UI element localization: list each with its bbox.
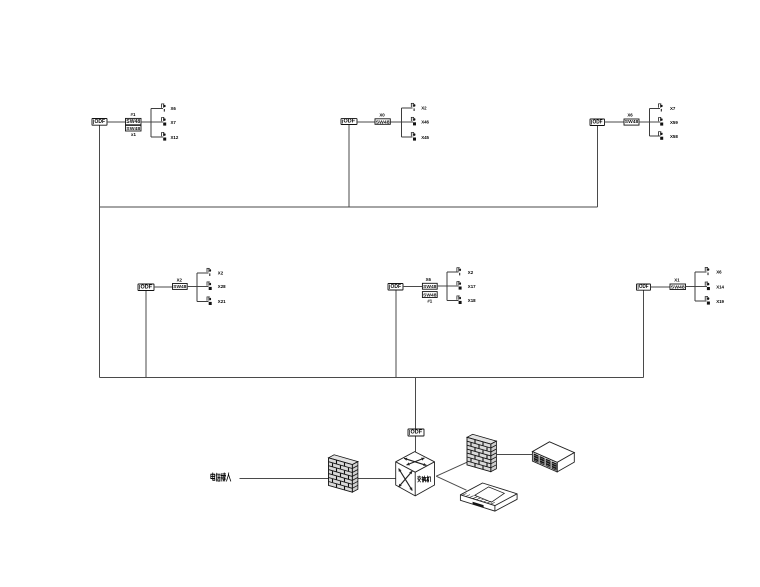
svg-text:X18: X18 bbox=[468, 298, 476, 303]
svg-text:X1: X1 bbox=[674, 278, 680, 283]
svg-text:ODF: ODF bbox=[411, 430, 423, 436]
svg-text:#1: #1 bbox=[427, 298, 432, 303]
svg-text:X6: X6 bbox=[716, 270, 722, 275]
svg-text:X2: X2 bbox=[468, 270, 474, 275]
svg-text:X12: X12 bbox=[171, 135, 179, 140]
svg-text:X0: X0 bbox=[379, 113, 385, 118]
svg-text:#1: #1 bbox=[131, 112, 136, 117]
svg-text:X2: X2 bbox=[421, 106, 427, 111]
svg-text:X2: X2 bbox=[177, 278, 183, 283]
svg-text:X45: X45 bbox=[421, 135, 429, 140]
svg-text:SW48: SW48 bbox=[423, 292, 437, 297]
svg-text:X21: X21 bbox=[218, 299, 226, 304]
svg-text:SW48: SW48 bbox=[625, 119, 639, 125]
svg-text:x1: x1 bbox=[131, 132, 136, 137]
svg-text:ODF: ODF bbox=[639, 284, 649, 290]
svg-text:X6: X6 bbox=[627, 113, 633, 118]
svg-text:X6: X6 bbox=[171, 106, 177, 111]
svg-text:SW48: SW48 bbox=[376, 119, 390, 124]
svg-text:ODF: ODF bbox=[344, 119, 356, 125]
svg-text:ODF: ODF bbox=[391, 284, 402, 290]
svg-text:X7: X7 bbox=[171, 120, 177, 125]
svg-text:X7: X7 bbox=[670, 106, 676, 111]
svg-text:X46: X46 bbox=[421, 120, 429, 125]
svg-text:SW48: SW48 bbox=[671, 284, 686, 289]
svg-text:SW48: SW48 bbox=[126, 126, 141, 131]
svg-text:X2: X2 bbox=[218, 271, 224, 276]
svg-text:X14: X14 bbox=[716, 284, 724, 289]
svg-text:SW48: SW48 bbox=[173, 284, 187, 289]
svg-text:SW48: SW48 bbox=[423, 284, 437, 289]
svg-text:ODF: ODF bbox=[95, 119, 106, 125]
svg-text:X59: X59 bbox=[670, 120, 678, 125]
svg-text:X58: X58 bbox=[670, 134, 678, 139]
svg-text:X17: X17 bbox=[468, 284, 476, 289]
svg-text:ODF: ODF bbox=[141, 284, 153, 290]
svg-text:ODF: ODF bbox=[593, 119, 603, 125]
svg-text:X28: X28 bbox=[218, 284, 226, 289]
svg-text:X6: X6 bbox=[426, 277, 432, 282]
svg-text:X19: X19 bbox=[716, 299, 724, 304]
svg-text:SW48: SW48 bbox=[126, 119, 140, 125]
